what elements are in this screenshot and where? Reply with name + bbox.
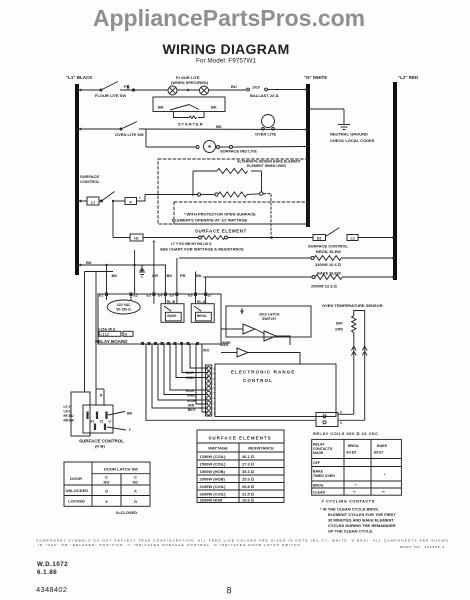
- svg-text:6: 6: [214, 387, 216, 391]
- svg-text:ELEMENTS OPERATE AT 1/2 WATTAG: ELEMENTS OPERATE AT 1/2 WATTAGE: [172, 218, 247, 223]
- svg-text:# CYCLING CONTACTS: # CYCLING CONTACTS: [322, 499, 375, 504]
- svg-text:W/R: W/R: [188, 404, 195, 408]
- svg-text:OVEN TEMPERATURE SENSOR: OVEN TEMPERATURE SENSOR: [322, 303, 383, 308]
- svg-text:CONTROL: CONTROL: [243, 378, 273, 383]
- svg-text:8: 8: [227, 586, 232, 596]
- svg-text:850-: 850-: [336, 322, 344, 326]
- svg-text:SWITCH: SWITCH: [262, 317, 276, 321]
- svg-text:2600W (COIL): 2600W (COIL): [200, 492, 227, 497]
- svg-text:1500W (HOB): 1500W (HOB): [200, 469, 226, 474]
- svg-text:BK: BK: [216, 124, 222, 129]
- svg-text:#: #: [340, 421, 342, 425]
- svg-text:SEE CHART FOR WATTAGE & RESIST: SEE CHART FOR WATTAGE & RESISTANCE: [160, 247, 244, 252]
- svg-text:*: *: [355, 483, 357, 487]
- svg-text:BAKE: BAKE: [377, 444, 388, 448]
- svg-text:"N" WHITE: "N" WHITE: [304, 75, 327, 80]
- svg-text:BROIL: BROIL: [313, 483, 325, 487]
- svg-text:CYCLES DURING THE REMAINDER: CYCLES DURING THE REMAINDER: [328, 523, 396, 528]
- svg-text:CLEAN: CLEAN: [313, 490, 326, 494]
- svg-text:V1: V1: [100, 420, 104, 424]
- svg-text:RELAY BOARD: RELAY BOARD: [95, 339, 128, 344]
- svg-text:H1: H1: [134, 237, 139, 241]
- svg-text:GR: GR: [152, 273, 158, 278]
- svg-text:2450: 2450: [335, 328, 343, 332]
- svg-text:46.1 Ω: 46.1 Ω: [242, 454, 254, 459]
- svg-text:21.5 Ω: 21.5 Ω: [242, 492, 254, 497]
- svg-text:#: #: [340, 411, 342, 415]
- svg-text:RR-BR: RR-BR: [64, 419, 75, 423]
- svg-text:TIMED OVEN: TIMED OVEN: [313, 474, 335, 478]
- svg-text:OVEN LITE SW: OVEN LITE SW: [115, 132, 144, 137]
- svg-text:E4 E5: E4 E5: [347, 451, 357, 455]
- svg-text:"L2" RED: "L2" RED: [398, 75, 419, 80]
- svg-text:BK: BK: [86, 260, 92, 265]
- svg-text:19.6 Ω: 19.6 Ω: [242, 498, 254, 503]
- svg-text:**: **: [382, 490, 385, 494]
- svg-text:LT Y RO BR BY BU LB O: LT Y RO BR BY BU LB O: [171, 242, 212, 246]
- svg-text:4348402: 4348402: [36, 585, 67, 594]
- svg-text:BROIL: BROIL: [348, 444, 360, 448]
- svg-text:OF THE CLEAN CYCLE.: OF THE CLEAN CYCLE.: [328, 529, 373, 534]
- svg-text:* IN THE CLEAN CYCLE BROIL: * IN THE CLEAN CYCLE BROIL: [320, 507, 379, 512]
- svg-text:E7: E7: [208, 294, 212, 298]
- svg-text:1500W (COIL): 1500W (COIL): [200, 462, 227, 467]
- svg-text:W/BU: W/BU: [187, 394, 196, 398]
- svg-text:E1: E1: [99, 294, 103, 298]
- svg-text:O: O: [105, 488, 108, 493]
- svg-text:Y: Y: [129, 428, 132, 432]
- svg-text:3400W 16.4 Ω: 3400W 16.4 Ω: [315, 262, 341, 267]
- svg-text:WIRING DIAGRAM: WIRING DIAGRAM: [162, 41, 289, 57]
- svg-text:H1: H1: [90, 420, 94, 424]
- svg-text:RELAY COILS 650 Ω 24 VDC: RELAY COILS 650 Ω 24 VDC: [313, 431, 379, 436]
- svg-text:U: U: [109, 420, 112, 424]
- svg-text:5: 5: [214, 392, 216, 396]
- svg-text:LF-Y: LF-Y: [64, 405, 72, 409]
- svg-text:BU: BU: [231, 84, 237, 89]
- svg-text:PR: PR: [180, 273, 186, 278]
- svg-text:ELEMENT WHEN USED: ELEMENT WHEN USED: [247, 164, 287, 168]
- svg-text:NC: NC: [133, 479, 139, 484]
- svg-text:UNLOCKED: UNLOCKED: [66, 488, 89, 493]
- svg-text:(K-B): (K-B): [95, 444, 105, 449]
- svg-text:30 MINUTES AND BAKE ELEMENT: 30 MINUTES AND BAKE ELEMENT: [328, 518, 394, 523]
- svg-text:W.D.1072: W.D.1072: [37, 561, 68, 568]
- svg-text:OVEN LITE: OVEN LITE: [255, 132, 276, 137]
- svg-text:ALTERNATE HIDDEN BAKE ELEMENT: ALTERNATE HIDDEN BAKE ELEMENT: [237, 160, 302, 164]
- svg-text:E3: E3: [147, 294, 151, 298]
- svg-text:BK: BK: [112, 273, 118, 278]
- svg-text:BROIL ELEM: BROIL ELEM: [316, 249, 341, 254]
- svg-text:IN "OFF" OR "RELAXED" POSITION: IN "OFF" OR "RELAXED" POSITION. ▭ INDICA…: [38, 543, 301, 547]
- svg-text:**: **: [353, 490, 356, 494]
- svg-text:120 VAC: 120 VAC: [117, 303, 131, 307]
- svg-text:MADE: MADE: [313, 451, 324, 455]
- svg-text:AppliancePartsPros.com: AppliancePartsPros.com: [93, 5, 365, 31]
- svg-text:1: 1: [214, 411, 216, 415]
- svg-text:BROIL: BROIL: [197, 314, 207, 318]
- svg-text:BK: BK: [211, 105, 217, 110]
- svg-text:X: X: [105, 499, 108, 504]
- svg-text:W/O: W/O: [203, 349, 210, 353]
- svg-text:3: 3: [214, 402, 216, 406]
- svg-text:X: X: [134, 488, 137, 493]
- svg-text:ELEMENT CYCLES FOR THE FIRST: ELEMENT CYCLES FOR THE FIRST: [328, 512, 396, 517]
- svg-text:E6: E6: [188, 294, 192, 298]
- svg-text:W/BR: W/BR: [222, 341, 231, 345]
- svg-text:27.3 Ω: 27.3 Ω: [242, 462, 254, 467]
- svg-text:MART NO. 334958-3: MART NO. 334958-3: [400, 545, 445, 549]
- svg-text:N: N: [125, 332, 128, 336]
- svg-text:*: *: [139, 196, 141, 201]
- svg-text:0: 0: [214, 367, 216, 371]
- svg-text:1250W (COIL): 1250W (COIL): [200, 454, 227, 459]
- svg-text:SURFACE ELEMENTS: SURFACE ELEMENTS: [208, 436, 271, 441]
- svg-text:RF-BU: RF-BU: [64, 414, 75, 418]
- svg-text:LR-O: LR-O: [64, 410, 72, 414]
- svg-text:SURFACE CONTROL: SURFACE CONTROL: [308, 243, 349, 248]
- svg-text:For Model: F9757W1: For Model: F9757W1: [196, 58, 256, 65]
- svg-text:(WHEN SPECIFIED): (WHEN SPECIFIED): [171, 80, 209, 85]
- svg-text:BK: BK: [167, 273, 173, 278]
- svg-text:E2: E2: [134, 294, 138, 298]
- svg-text:2600W HOB: 2600W HOB: [200, 498, 223, 503]
- svg-text:WATTAGE: WATTAGE: [208, 446, 228, 451]
- svg-text:2500W 22.8 Ω: 2500W 22.8 Ω: [311, 283, 337, 288]
- svg-text:E4: E4: [158, 294, 162, 298]
- svg-text:BK: BK: [196, 273, 202, 278]
- svg-text:35.1 Ω: 35.1 Ω: [242, 469, 254, 474]
- svg-text:2000W (HOB): 2000W (HOB): [200, 477, 226, 482]
- svg-text:NO: NO: [104, 479, 110, 484]
- svg-text:LOCKED: LOCKED: [68, 499, 85, 504]
- svg-text:RL-B: RL-B: [167, 300, 176, 304]
- svg-text:25.3 Ω: 25.3 Ω: [242, 477, 254, 482]
- svg-text:OFF: OFF: [313, 461, 321, 465]
- svg-text:50-150 Ω: 50-150 Ω: [116, 308, 131, 312]
- svg-text:FLOUR LITE SW: FLOUR LITE SW: [95, 93, 126, 98]
- svg-text:"L1" BLACK: "L1" BLACK: [66, 75, 93, 80]
- svg-text:ELECTRONIC RANGE: ELECTRONIC RANGE: [231, 370, 295, 375]
- svg-text:26.8 Ω: 26.8 Ω: [242, 484, 254, 489]
- svg-text:R/OR: R/OR: [186, 389, 195, 393]
- svg-text:BU/R: BU/R: [186, 371, 194, 375]
- svg-text:SURFACE ELEMENT: SURFACE ELEMENT: [195, 229, 247, 234]
- svg-text:CONTROL: CONTROL: [80, 179, 100, 184]
- svg-text:4: 4: [214, 397, 216, 401]
- svg-text:* WITH PROTECTOR OPEN SURFACE: * WITH PROTECTOR OPEN SURFACE: [184, 212, 256, 217]
- svg-text:E5: E5: [170, 294, 174, 298]
- svg-text:8: 8: [214, 377, 216, 381]
- svg-text:BK/Y: BK/Y: [188, 408, 196, 412]
- svg-text:W/OR: W/OR: [187, 399, 196, 403]
- svg-text:COMPONENT SYMBOLS DO NOT REFLE: COMPONENT SYMBOLS DO NOT REFLECT TRUE CO…: [36, 539, 449, 543]
- svg-text:X=CLOSED: X=CLOSED: [116, 510, 138, 515]
- svg-text:CHECK LOCAL CODES: CHECK LOCAL CODES: [330, 138, 375, 143]
- svg-text:STARTER: STARTER: [178, 122, 204, 127]
- svg-text:6.1.86: 6.1.86: [37, 569, 57, 576]
- svg-text:O: O: [134, 499, 137, 504]
- svg-text:W/BK: W/BK: [186, 376, 195, 380]
- svg-text:BAKE: BAKE: [167, 314, 176, 318]
- svg-text:P: P: [130, 200, 133, 204]
- svg-text:L1 L2: L1 L2: [101, 332, 110, 336]
- svg-text:L2: L2: [350, 237, 354, 241]
- svg-text:DOOR LATCH SW: DOOR LATCH SW: [104, 467, 138, 472]
- svg-text:DOOR: DOOR: [70, 476, 82, 481]
- svg-text:L1: L1: [91, 201, 95, 205]
- svg-text:SURFACE IND LITE: SURFACE IND LITE: [220, 149, 257, 154]
- svg-text:2100W (COIL): 2100W (COIL): [200, 484, 227, 489]
- svg-text:7: 7: [214, 382, 216, 386]
- svg-text:3010 LATCH: 3010 LATCH: [259, 313, 280, 317]
- svg-text:BAKE: BAKE: [313, 470, 324, 474]
- svg-text:PR: PR: [124, 84, 130, 89]
- svg-text:RESISTANCE: RESISTANCE: [248, 446, 274, 451]
- svg-text:BALLAST 24 Ω: BALLAST 24 Ω: [250, 93, 278, 98]
- svg-text:2: 2: [214, 407, 216, 411]
- svg-text:K2: K2: [317, 237, 322, 241]
- svg-text:1010: 1010: [252, 86, 260, 90]
- svg-text:*: *: [384, 473, 386, 477]
- svg-text:NEUTRAL GROUND: NEUTRAL GROUND: [330, 132, 368, 137]
- svg-text:RL-A: RL-A: [197, 300, 206, 304]
- svg-text:E6 E7: E6 E7: [374, 451, 384, 455]
- svg-text:BK: BK: [158, 105, 164, 110]
- svg-text:BR: BR: [127, 412, 133, 416]
- svg-text:R: R: [100, 394, 103, 398]
- svg-text:9: 9: [214, 372, 216, 376]
